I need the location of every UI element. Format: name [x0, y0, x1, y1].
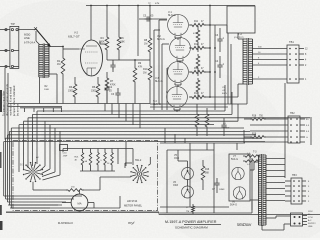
- wire bundle horizontals: [4, 111, 310, 142]
- label TB2: [290, 112, 295, 115]
- label T-2: [234, 32, 244, 39]
- wire screen bus drop: [137, 5, 139, 56]
- label V8 5U4-G: [230, 201, 237, 207]
- rotary switch SW1: [23, 162, 43, 182]
- T1 secondary lead bottom: [49, 74, 57, 104]
- wire left vertical pair: [5, 68, 8, 140]
- wire V1 plate to R4: [100, 41, 107, 44]
- power transformer T3: [253, 151, 266, 227]
- wire psu bottom: [160, 201, 252, 213]
- wire cathode V3: [175, 83, 181, 87]
- wire grid bus 4: [166, 68, 168, 110]
- terminal row 1: [0, 29, 36, 31]
- 115V connector: [291, 213, 308, 226]
- label SW1: [20, 156, 39, 167]
- capacitor C2 25MF: [104, 84, 112, 104]
- label TB1: [289, 40, 294, 44]
- label SW2: [135, 159, 142, 162]
- capacitor C7 16MF: [212, 178, 225, 193]
- wire B+ top bus: [86, 5, 255, 7]
- tube V6 OD3: [182, 186, 194, 198]
- T1 primary lead down: [36, 31, 40, 104]
- capacitor C5 .05: [139, 15, 167, 22]
- label V1 6SL7-GT: [68, 31, 80, 39]
- output transformer case: [227, 6, 255, 33]
- tube V3 6L6-G: [168, 62, 189, 83]
- label drawing number: [58, 221, 74, 225]
- gain pot arrow: [34, 27, 51, 47]
- wire coupling row: [107, 60, 119, 72]
- caution note rotated text: [1, 83, 19, 117]
- resistor R19: [244, 134, 288, 139]
- resistor screen R12 47: [189, 44, 210, 50]
- label 6L6-G 1: [168, 11, 176, 17]
- wire grid bus 2: [159, 20, 167, 104]
- resistor bias 2: [196, 54, 200, 76]
- psu box left: [167, 143, 214, 213]
- title SCHEMATIC DIAGRAM: [175, 226, 208, 230]
- capacitor C6: [111, 88, 121, 104]
- meter M1: [62, 190, 94, 211]
- tube V1 6L6-G: [168, 15, 189, 36]
- label 115V note: [308, 211, 316, 228]
- terminal strip TB2: [244, 116, 305, 143]
- wire SW1 meter: [33, 157, 150, 190]
- label transformer T1 type: [24, 41, 36, 44]
- TB3 terminal numbers: [308, 181, 310, 203]
- T1 secondary lead top: [49, 46, 64, 48]
- label V5 OC3: [174, 154, 180, 160]
- resistor R14: [205, 108, 209, 136]
- wire B+ right drop: [284, 83, 286, 178]
- terminal strip TB3: [291, 178, 306, 204]
- resistor R18 750: [244, 116, 288, 121]
- TB2 numbers: [306, 119, 310, 139]
- wire T2 secondary taps: [253, 47, 288, 80]
- resistor R5 cathode: [91, 77, 100, 104]
- label V7 5U4-G: [231, 155, 238, 161]
- capacitor C3: [215, 28, 225, 52]
- label TB3: [292, 174, 297, 177]
- rectifier box: [229, 154, 250, 201]
- wire cathode V2: [177, 59, 183, 63]
- label V6 OD3: [173, 181, 179, 187]
- meter panel resistors: [60, 145, 134, 172]
- wire cathode V1: [175, 36, 181, 40]
- input jack label TIP: [11, 22, 15, 26]
- wire ground bus: [8, 104, 150, 107]
- resistor screen R13 47: [189, 68, 210, 74]
- wire T2 primary top: [210, 25, 243, 39]
- wire psu top bus: [160, 128, 245, 150]
- resistor R7 470K: [105, 72, 116, 104]
- signature MaDow: [237, 222, 252, 227]
- handwriting myl: [128, 220, 134, 225]
- wire T3 left leads: [250, 158, 259, 210]
- resistor R16: [201, 160, 210, 190]
- label 6L6-G 2: [157, 35, 165, 41]
- wire bundle risers: [105, 104, 140, 129]
- tube V8 5U4-G: [233, 187, 245, 199]
- resistor meter 150: [42, 187, 100, 192]
- resistor R8 1M: [144, 6, 152, 61]
- tube V2 6L6-G: [170, 38, 191, 59]
- capacitor C4: [215, 56, 228, 95]
- wire grid bus 1: [154, 30, 160, 110]
- wire T2 under: [150, 33, 247, 107]
- cable comb: [20, 108, 62, 112]
- rotary switch SW2: [130, 165, 148, 183]
- wire screen bus right: [214, 25, 216, 110]
- choke L2: [243, 160, 260, 166]
- resistor R10: [143, 60, 152, 104]
- wire meter bottom: [8, 196, 120, 208]
- transformer T1: [39, 44, 49, 79]
- wire V5 V6 series: [178, 150, 188, 186]
- label 600 ohm line: [24, 33, 30, 40]
- resistor bias 3: [196, 78, 200, 100]
- wire T3 taps: [266, 159, 291, 202]
- label 6L6-G 4: [153, 100, 161, 106]
- resistor R6 56K: [117, 6, 125, 61]
- resistor R3 1500: [68, 77, 77, 104]
- tube V4 6L6-G: [167, 87, 188, 108]
- capacitor C8: [221, 118, 230, 136]
- wire T3 to connector: [262, 216, 291, 230]
- wire plate bus right: [209, 6, 211, 98]
- resistor R17: [186, 204, 194, 214]
- meter panel box: [6, 141, 159, 215]
- TB1 terminal numbers: [305, 49, 308, 82]
- terminal strip TB1: [287, 45, 304, 83]
- tube V1 6SL7-GT: [79, 40, 103, 76]
- title M-1597-A POWER AMPLIFIER: [165, 220, 221, 225]
- terminal row 3: [0, 65, 19, 67]
- resistor R1 1M: [57, 47, 65, 104]
- label meter panel: [124, 199, 143, 208]
- wire grid bus 3: [162, 44, 169, 110]
- wire cathode V4: [174, 108, 180, 112]
- wire grid V1: [44, 49, 79, 91]
- terminal row 2: [0, 49, 19, 51]
- input terminal board: [10, 26, 19, 68]
- choke L1: [243, 153, 260, 157]
- label top bus: [148, 3, 159, 5]
- tube V7 5U4-G: [232, 167, 244, 179]
- wire SW2 feed: [118, 142, 133, 166]
- resistor screen R11 47: [189, 21, 210, 27]
- resistor R4 220K: [99, 6, 109, 61]
- resistor R9 phase: [133, 60, 142, 104]
- wire bundle right risers: [225, 85, 244, 143]
- wire plate couple: [119, 59, 150, 61]
- transformer T2: [243, 38, 253, 85]
- resistor R13: [195, 104, 199, 136]
- wire V1 plate drop: [90, 6, 92, 41]
- bottom border: [6, 212, 320, 215]
- wire bundle left drops: [4, 111, 82, 208]
- tube V5 OC3: [182, 168, 194, 180]
- label 6L6-G 3: [155, 77, 163, 83]
- resistor screen R14 47: [189, 93, 210, 99]
- wire T2 primary bottom: [210, 84, 243, 97]
- resistor bias 1: [193, 26, 200, 52]
- wire right edge drops: [310, 117, 312, 145]
- left edge scan marks: [0, 90, 3, 230]
